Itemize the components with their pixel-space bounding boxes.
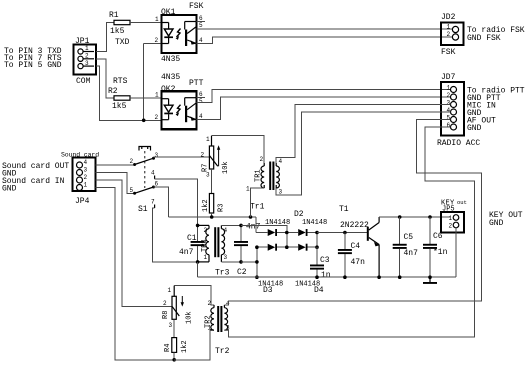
junction mid bottom [285,245,289,249]
capacitor C4 [338,233,352,278]
junction R4 bottom [172,358,176,362]
svg-text:2: 2 [130,158,134,165]
svg-text:PTT: PTT [189,79,204,88]
potentiometer R8 [163,286,184,329]
svg-text:C4: C4 [351,242,361,251]
wire JP5.2 to rail [455,228,457,278]
svg-text:RADIO ACC: RADIO ACC [437,139,480,148]
svg-text:3: 3 [84,167,88,174]
capacitor C1 [191,225,205,262]
S1 pole 1 contact 3 [152,157,155,160]
connector JP5 [441,212,464,233]
junction R3/net [210,215,214,219]
wire Sound card IN down to R8 wiper [96,180,173,306]
diode D3 (bottom left) [257,244,287,251]
svg-text:5: 5 [199,98,203,105]
svg-text:4: 4 [224,227,228,234]
svg-text:1: 1 [84,182,88,189]
junction C6 top [428,215,432,219]
junction Tr1.1/net [249,215,253,219]
diode D4 (bottom right) [287,244,317,251]
svg-text:1k5: 1k5 [110,27,125,36]
svg-text:4: 4 [447,107,451,114]
wire OK2.4 to JD7.2 [197,97,451,120]
svg-text:TR1: TR1 [255,169,263,182]
svg-text:3: 3 [85,60,89,67]
svg-text:out: out [457,199,467,206]
svg-text:JD2: JD2 [441,13,456,22]
wire COM/GND: JP1.3 down and right to OK2.2, branch up to OK1.2 [96,66,162,120]
svg-text:D2: D2 [294,210,304,219]
wire Tr1.4 to MIC IN (JD7.3) [276,105,450,164]
svg-text:TXD: TXD [115,38,130,47]
svg-text:4: 4 [84,159,88,166]
junction C2 bottom [239,260,243,264]
svg-text:To PIN 5 GND: To PIN 5 GND [4,61,62,70]
wire RTS: JP1.2 to R2 [96,59,114,98]
wire S1.3 to R7 wiper [154,156,210,158]
svg-text:D3: D3 [263,286,273,295]
junction C5 top [398,215,402,219]
svg-text:7: 7 [151,199,155,206]
svg-text:D4: D4 [314,286,324,295]
svg-text:1: 1 [246,186,250,193]
wire Tr3.3 to C2 bottom node [221,261,241,263]
wire S1.4 down to Tr3.2 node (crosses net at y217) [155,179,198,226]
junction right bottom [315,245,319,249]
svg-text:2N2222: 2N2222 [340,221,369,230]
svg-text:1: 1 [85,45,89,52]
svg-text:2: 2 [260,156,264,163]
svg-text:4n7: 4n7 [179,248,194,257]
wire Tr3.4 to C2 node [221,224,241,226]
svg-text:R4: R4 [164,344,172,352]
wire audio net down to top diode row [255,217,257,233]
wire GND down to R4 bottom rail [96,188,175,360]
resistor R1 [114,20,130,24]
svg-text:TR2: TR2 [205,315,213,328]
resistor R3 [209,194,213,214]
svg-text:2: 2 [155,114,159,121]
S1 pole 2 contact 6 [152,186,155,189]
svg-text:*1n: *1n [433,248,448,257]
svg-text:10k: 10k [186,311,194,324]
svg-text:GND FSK: GND FSK [467,34,501,43]
connector JD7 [441,82,464,136]
svg-text:1: 1 [206,136,210,143]
wire R1 to OK1.1 [130,22,162,24]
junction C1 bottom [196,260,200,264]
svg-text:S1: S1 [138,205,148,214]
svg-text:4: 4 [199,113,203,120]
svg-text:COM: COM [76,77,91,86]
diode right column wire [316,233,318,248]
svg-text:5: 5 [130,187,134,194]
svg-text:C2: C2 [237,268,247,277]
wire GND to S1 pole2 common [96,173,135,194]
wire R4 bottom to rail2 [173,352,175,359]
net audio: S1.6 to Tr1.1 and diode feed [169,216,256,218]
switch S1 (DPDT) [130,147,159,209]
svg-text:3: 3 [279,189,283,196]
node labels: To PIN 3 TXD / To PIN 7 RTS / To PIN 5 GND [4,47,62,70]
wire Tr1.1 to audio net [251,188,265,217]
S1 pole 2 contact 5 [133,192,136,195]
ground rail [198,276,456,278]
svg-text:1: 1 [168,287,172,294]
svg-text:4n7: 4n7 [404,249,419,258]
wire Tr1.3 to GND (JD7.4) [276,112,450,195]
wire C1 bottom to rail [197,262,199,277]
svg-text:OK2: OK2 [161,85,176,94]
wire Sound card OUT to S1 pole1 common [96,164,135,166]
svg-text:GND: GND [489,219,504,228]
svg-text:1: 1 [204,254,208,261]
pin 6 stub OK2 [197,97,206,99]
wire S1.7 down to Tr3 bottom wire [153,208,198,262]
svg-text:R2: R2 [108,87,118,96]
junction at COM rail [142,119,146,123]
svg-text:Tr2: Tr2 [215,347,230,356]
wire base net: diode out to T1 base [317,232,368,234]
connector JP4 (sound card) [73,158,96,192]
svg-text:4N35: 4N35 [161,55,180,64]
wire R2 to OK2.1 [130,97,162,99]
svg-text:Tr3: Tr3 [215,269,230,278]
svg-text:10k: 10k [222,161,230,174]
S1 pole 1 contact 2 [133,163,136,166]
pin 6 stub OK1 [197,21,206,23]
S1 mechanical dashed link [144,151,146,188]
diode D2b (top right) [287,229,317,236]
svg-text:4: 4 [279,158,283,165]
svg-text:JP1: JP1 [75,37,90,46]
optocoupler OK2 [162,91,197,129]
svg-text:6: 6 [199,15,203,22]
svg-text:R1: R1 [109,11,119,20]
connector JD2 [441,23,464,46]
svg-text:4N35: 4N35 [161,73,180,82]
svg-text:JP4: JP4 [75,197,90,206]
wire OK1.5 to JD2.1 [197,28,453,30]
junction bottom row left [255,245,259,249]
resistor R4 [172,338,177,353]
wire bottom-left diode column to rail [256,247,258,277]
svg-text:5: 5 [447,115,451,122]
wire S1.6 down to audio net [154,187,169,217]
svg-text:TR3: TR3 [201,239,209,252]
svg-text:4: 4 [199,37,203,44]
svg-text:1k5: 1k5 [112,102,127,111]
wire R3 bottom to net [211,213,213,217]
svg-text:C1: C1 [187,234,197,243]
svg-text:2: 2 [447,92,451,99]
wire Tr2.4 to AF OUT (JD7.5) [224,120,481,305]
junction C5 bottom [398,275,402,279]
svg-text:47n: 47n [351,258,366,267]
junction C3 bottom [315,275,319,279]
svg-text:2: 2 [85,53,89,60]
junction mid top [285,231,289,235]
svg-text:RTS: RTS [113,77,128,86]
svg-text:Tr1: Tr1 [250,203,265,212]
wire OK2.5 to JD7.1 [197,90,451,103]
svg-text:2: 2 [449,223,453,230]
svg-text:1N4148: 1N4148 [265,219,290,227]
wire TXD: JP1.1 to R1 [96,23,114,52]
wire OK1.4 to JD2.2 [197,37,453,43]
svg-text:1k2: 1k2 [181,340,189,353]
wire C2 node to diode mid column [241,225,287,232]
svg-text:R7: R7 [202,164,210,172]
junction C4 bottom [343,275,347,279]
svg-text:4: 4 [151,170,155,177]
svg-text:1N4148: 1N4148 [302,219,327,227]
svg-text:1: 1 [449,215,453,222]
svg-text:2: 2 [155,37,159,44]
junction C4 top [343,231,347,235]
svg-text:2: 2 [204,227,208,234]
svg-text:6: 6 [447,122,451,129]
diode mid column wire [286,233,288,248]
transistor T1 [367,217,380,277]
svg-text:3: 3 [224,254,228,261]
S1 actuator bracket [139,147,151,151]
wire Tr2.3 to GND (JD7.6) [224,127,474,337]
svg-text:5: 5 [199,22,203,29]
svg-text:T1: T1 [339,205,349,214]
capacitor C6 [423,217,437,277]
svg-text:FSK: FSK [189,2,204,11]
connector JP1 [74,45,97,75]
wire Tr3 bottom to left diode column [241,261,257,263]
wire R7.3 to R3 [211,169,213,194]
wire R8.1 to Tr2.2 [174,286,214,305]
svg-text:C3: C3 [320,256,330,265]
junction right top [315,231,319,235]
svg-text:1: 1 [447,85,451,92]
svg-text:1k2: 1k2 [202,199,210,212]
wire Tr2.1 down to rail2 [174,330,210,360]
junction C2 top [239,224,243,228]
svg-text:JD7: JD7 [441,73,456,82]
junction rail left [255,275,259,279]
junction Tr3 bottom / column [255,260,259,264]
transformer Tr1 [246,156,283,196]
svg-text:3: 3 [447,100,451,107]
svg-text:C5: C5 [404,233,414,242]
svg-text:6: 6 [155,181,159,188]
wire T1 collector to JP5.1 [379,216,450,218]
svg-text:2: 2 [447,31,451,38]
svg-text:2: 2 [208,300,212,307]
svg-text:R8: R8 [162,311,170,319]
capacitor C3 [310,247,324,277]
capacitor C5 [393,217,407,277]
svg-text:2: 2 [201,152,205,159]
transformer Tr3 [198,225,228,262]
junction C1 top [196,224,200,228]
transformer Tr2 [208,300,231,332]
wire R7.1 loop to Tr1.2 [212,136,265,163]
svg-text:1: 1 [155,92,159,99]
svg-text:3: 3 [169,322,173,329]
potentiometer R7 [201,136,221,179]
svg-text:R3: R3 [218,204,226,212]
svg-text:1: 1 [155,16,159,23]
optocoupler OK1 [162,15,197,53]
resistor R2 [114,96,130,100]
capacitor C2 [234,225,248,262]
svg-text:GND: GND [467,124,482,133]
svg-text:1n: 1n [321,271,331,280]
ground symbol [423,277,437,284]
S1 pole 1 lever [135,158,154,164]
wire R8.3 to R4 [173,319,175,337]
S1 pole 2 lever [135,187,154,193]
svg-text:FSK: FSK [441,48,456,57]
svg-text:2: 2 [84,174,88,181]
svg-text:3: 3 [155,152,159,159]
svg-text:2: 2 [163,300,167,307]
svg-text:GND: GND [2,185,17,194]
diode D2a (top left) [256,229,287,236]
svg-text:1: 1 [447,24,451,31]
junction T1 emitter/rail [377,275,381,279]
svg-text:4n7: 4n7 [246,223,261,232]
junction C6 bottom / ground [428,275,432,279]
